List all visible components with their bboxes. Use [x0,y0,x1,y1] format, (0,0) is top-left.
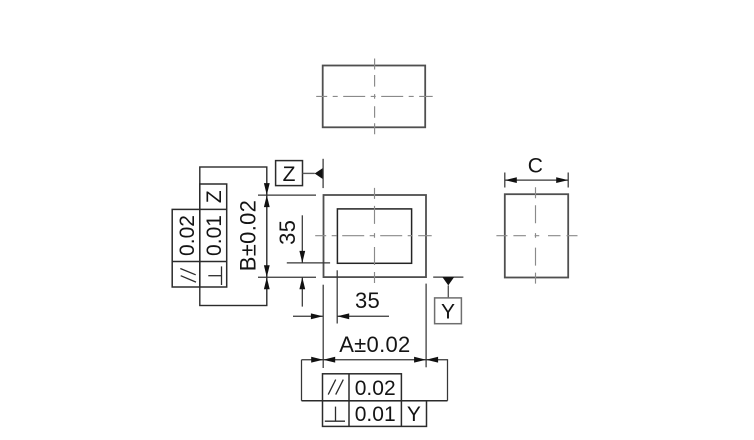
front view vertical centerline [374,188,376,283]
svg-text:Z: Z [283,163,296,186]
side view horizontal centerline [496,235,577,237]
top view outline [323,66,426,128]
left FCF parallelism // 0.02 [172,209,200,287]
side view vertical centerline [535,187,537,283]
svg-text:0.02: 0.02 [176,215,199,256]
vertical dimension 35 [275,215,330,306]
top view vertical centerline [374,59,376,135]
svg-text:35: 35 [275,220,300,245]
top view horizontal centerline [316,95,433,97]
bottom FCF parallelism // 0.02 [323,374,402,401]
front view horizontal centerline [315,235,432,237]
front view outer outline [324,195,427,277]
svg-text:Z: Z [203,190,226,203]
svg-text:A±0.02: A±0.02 [339,332,410,357]
datum Z flag [276,159,324,188]
dimension A±0.02 [302,284,448,401]
svg-text:35: 35 [355,288,380,313]
dimension C [505,154,568,187]
svg-text:0.02: 0.02 [355,377,396,400]
front view inner pocket outline [337,209,411,263]
side view outline [505,194,568,277]
left FCF perpendicularity ⊥ 0.01 Z [200,184,227,287]
svg-text:C: C [528,154,543,177]
svg-text:0.01: 0.01 [203,215,226,256]
svg-text:0.01: 0.01 [355,403,396,426]
svg-text:Y: Y [441,300,455,323]
dimension B±0.02 [200,167,316,306]
svg-text:Y: Y [407,403,421,426]
bottom FCF perpendicularity ⊥ 0.01 Y [302,401,448,427]
datum Y flag [433,277,463,324]
horizontal dimension 35 [293,270,389,323]
svg-text:B±0.02: B±0.02 [236,200,261,271]
